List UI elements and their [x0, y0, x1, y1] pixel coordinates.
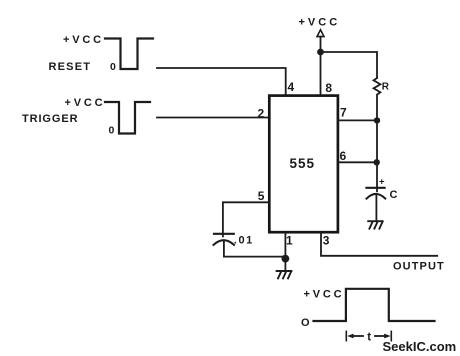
node R bottom / pin 7 junction	[374, 117, 380, 123]
svg-text:8: 8	[325, 81, 332, 95]
wire trigger to pin 2	[157, 117, 270, 119]
wire pin 5 to capacitor .01	[223, 202, 270, 236]
node pin 6 junction	[374, 159, 380, 165]
capacitor C curved plate	[367, 194, 386, 199]
svg-text:0: 0	[110, 61, 116, 73]
wire pin 7 to node	[338, 119, 377, 121]
svg-text:0: 0	[109, 124, 115, 136]
svg-text:+VCC: +VCC	[299, 16, 341, 28]
svg-text:OUTPUT: OUTPUT	[393, 261, 445, 273]
svg-text:TRIGGER: TRIGGER	[22, 113, 78, 125]
output waveform	[314, 289, 435, 321]
svg-text:+: +	[379, 177, 385, 188]
capacitor C2 .01 top plate	[214, 233, 234, 235]
svg-text:3: 3	[323, 234, 330, 248]
svg-text:.01: .01	[234, 234, 254, 246]
capacitor C top plate	[367, 187, 385, 189]
svg-text:2: 2	[258, 107, 265, 121]
pulse width left arrow	[351, 335, 363, 337]
svg-text:4: 4	[288, 80, 295, 94]
svg-text:+VCC: +VCC	[304, 288, 345, 300]
svg-text:t: t	[367, 332, 371, 344]
wire capacitor .01 to pin 1 node	[224, 241, 286, 257]
svg-text:1: 1	[286, 234, 293, 248]
power arrow symbol	[317, 30, 324, 37]
reset input waveform	[105, 39, 153, 70]
wire reset to pin 4	[157, 68, 286, 96]
wire capacitor C to ground	[375, 194, 377, 221]
svg-text:C: C	[390, 189, 398, 201]
svg-text:RESET: RESET	[49, 61, 92, 73]
svg-text:+VCC: +VCC	[65, 97, 106, 109]
wire node to ground	[284, 259, 286, 271]
svg-text:555: 555	[290, 156, 316, 171]
wire pin 1 stub	[284, 233, 286, 259]
svg-text:+VCC: +VCC	[63, 34, 104, 46]
node vcc junction	[317, 49, 324, 56]
svg-text:R: R	[382, 82, 390, 93]
svg-text:6: 6	[340, 149, 347, 163]
wire pin 3 to output	[321, 233, 437, 256]
pulse width left tick	[345, 331, 347, 340]
pulse width right tick	[390, 331, 392, 340]
wire vcc node to pin 8	[320, 52, 322, 96]
svg-text:7: 7	[340, 106, 347, 120]
node pin 1 junction	[282, 255, 290, 263]
ground (below pin 1)	[277, 271, 292, 278]
svg-text:O: O	[301, 317, 310, 329]
resistor R zigzag	[374, 78, 381, 120]
wire vcc to node	[320, 37, 322, 52]
svg-text:SeekIC.com: SeekIC.com	[383, 339, 457, 354]
pulse width right arrow	[375, 335, 387, 337]
ground (below C)	[368, 221, 382, 228]
wire pin 6 to node	[338, 161, 377, 163]
trigger input waveform	[105, 102, 150, 134]
svg-text:5: 5	[258, 189, 265, 203]
op-amp U1 555 timer body	[269, 96, 338, 233]
capacitor C2 .01 curved plate	[214, 240, 235, 245]
wire node to capacitor C	[376, 120, 378, 191]
wire vcc node to resistor R	[321, 52, 378, 78]
